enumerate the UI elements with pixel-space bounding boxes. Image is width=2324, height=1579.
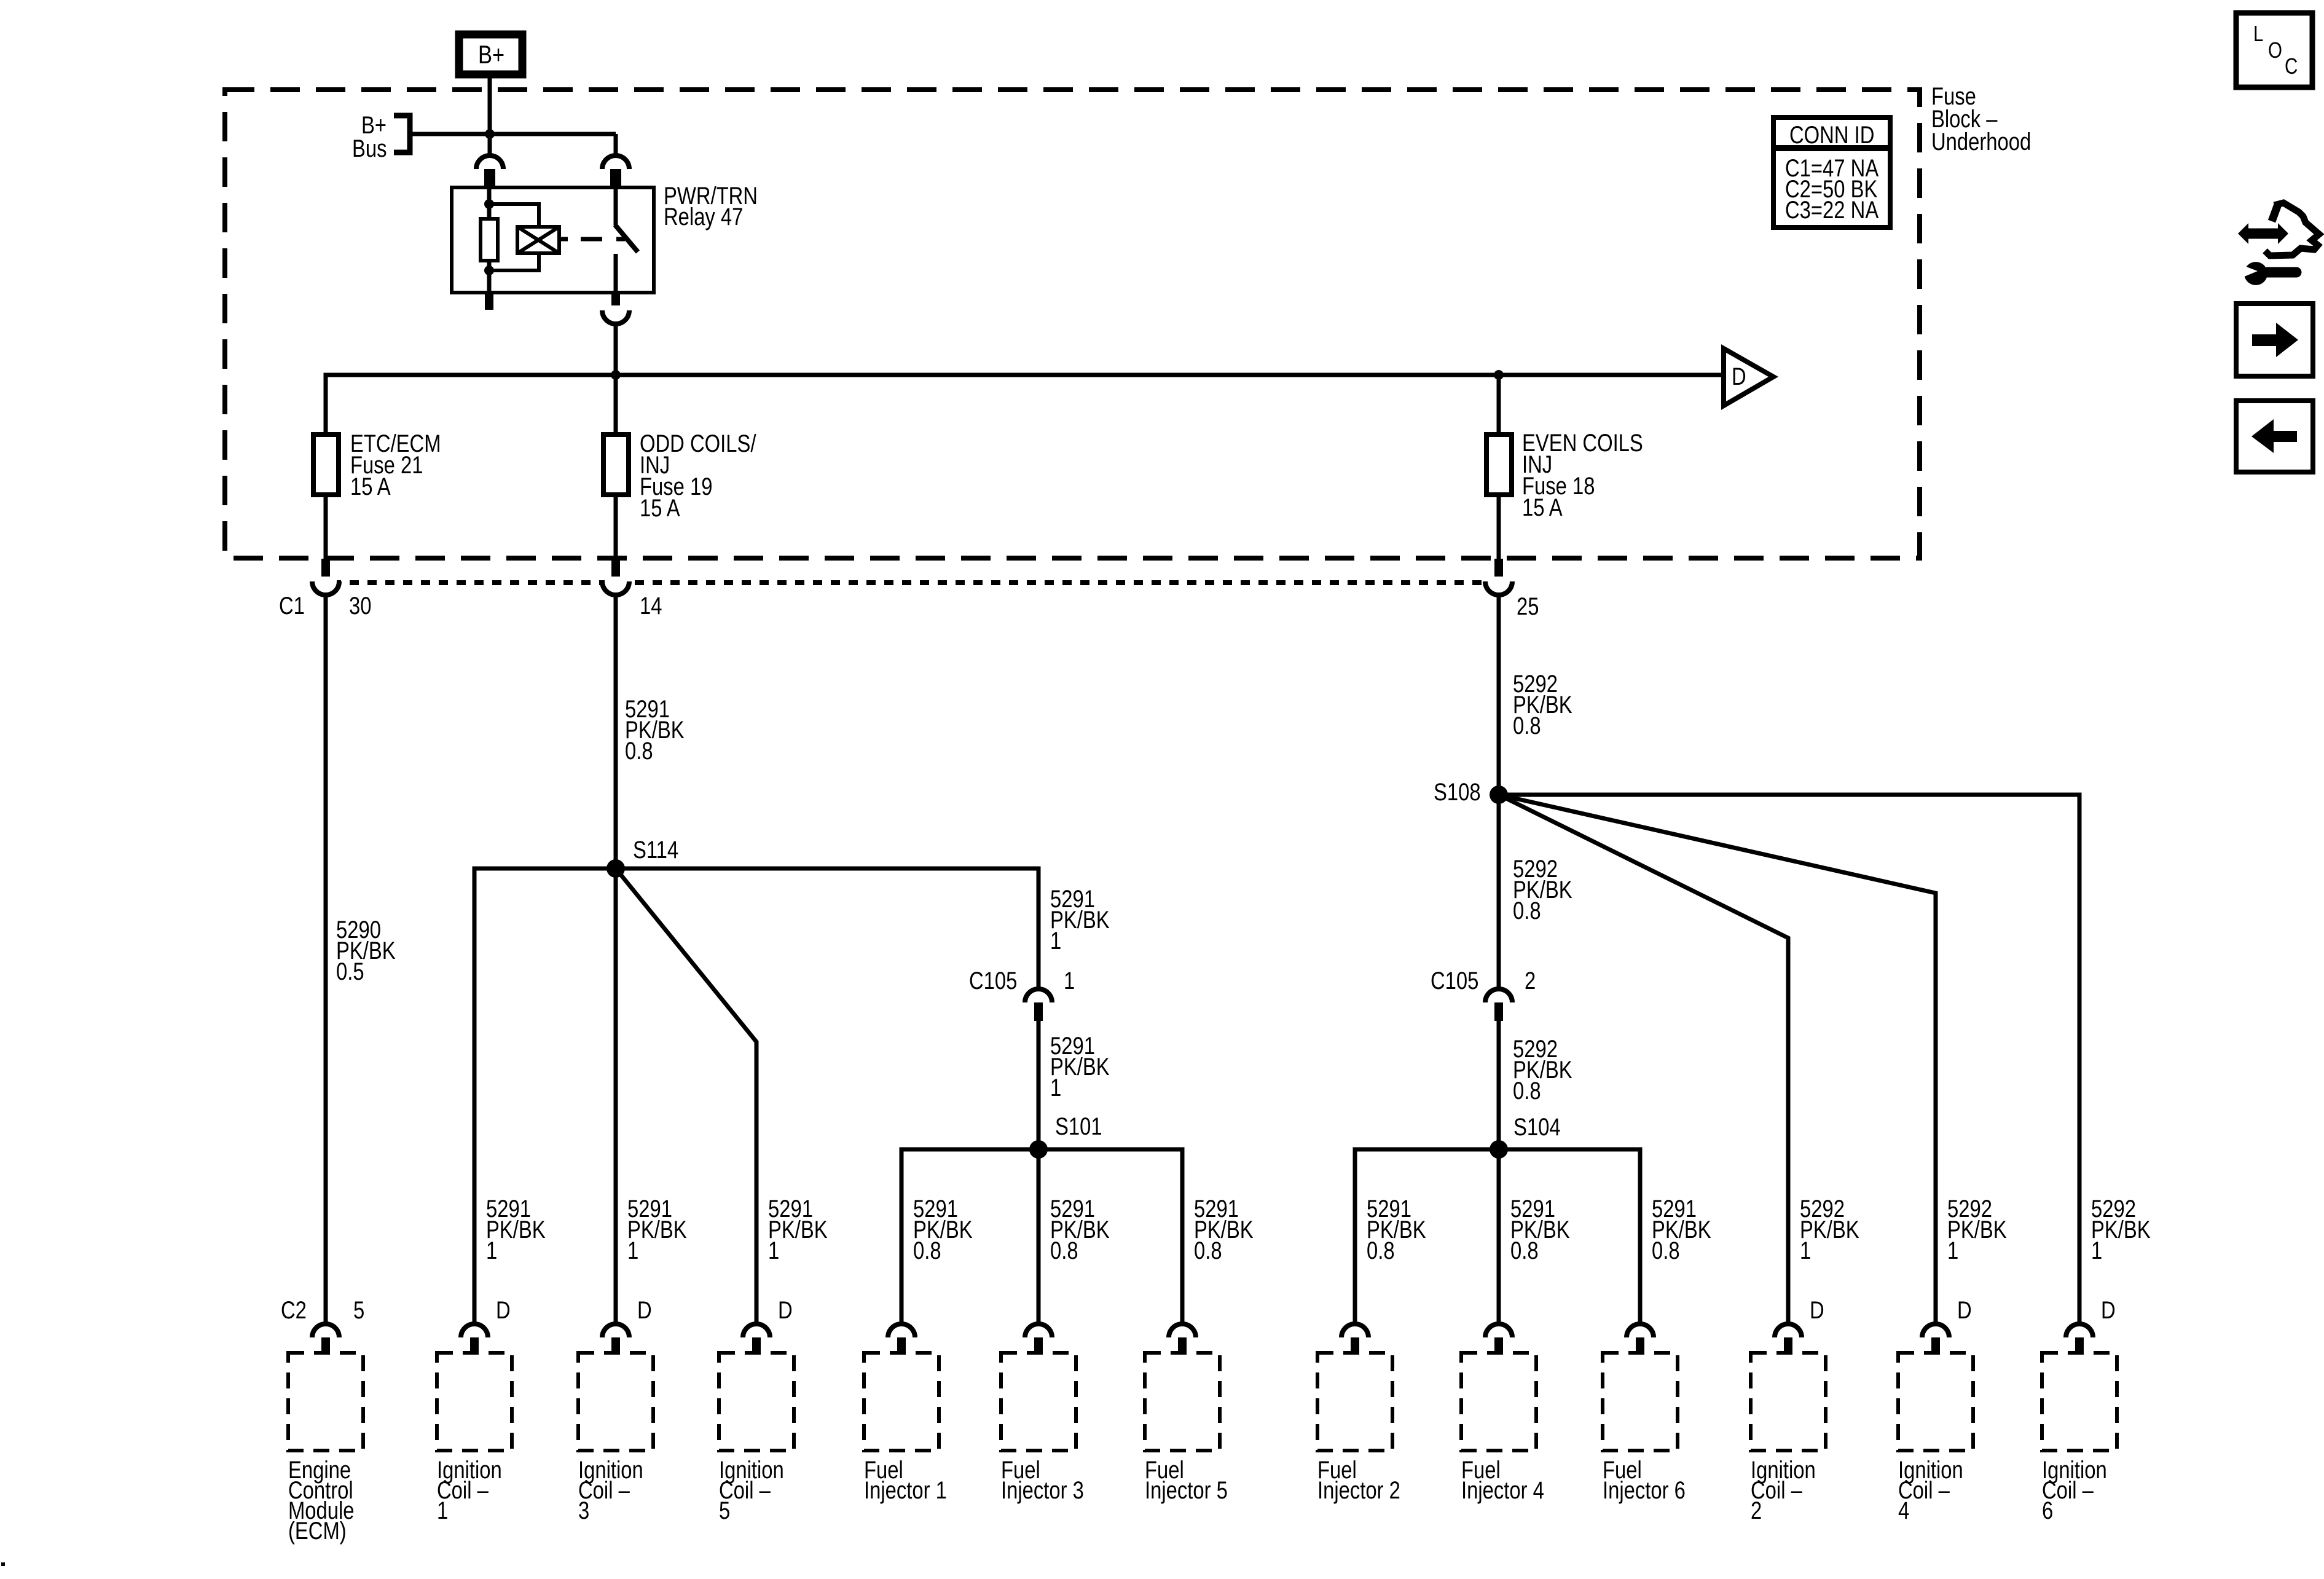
svg-text:D: D [496, 1296, 511, 1324]
connector at fuel injector 6 [1627, 1324, 1654, 1337]
svg-text:Injector 4: Injector 4 [1461, 1476, 1544, 1504]
svg-text:1: 1 [1050, 1074, 1061, 1101]
svg-text:C105: C105 [969, 967, 1017, 994]
connector at ignition coil 4 [1922, 1324, 1949, 1337]
relay internal wire below resistor [487, 261, 492, 293]
relay switch upper contact [614, 187, 618, 226]
wire S108 to ignition coil 6 [1499, 795, 2079, 1324]
wire 5290 PK/BK [324, 595, 328, 1324]
svg-text:0.8: 0.8 [1513, 712, 1541, 739]
component box fuel injector 4 [1461, 1353, 1536, 1451]
wire relay output down to bus [614, 323, 618, 375]
wire S101 to fuel injector 5 [1038, 1149, 1182, 1324]
connector at fuel injector 5 [1169, 1324, 1196, 1337]
component box ignition coil 3 [578, 1353, 653, 1451]
relay actuator dashed link [581, 237, 602, 242]
wire S101 to fuel injector 1 [901, 1149, 1038, 1324]
wire S104 to fuel injector 4 [1497, 1149, 1501, 1324]
svg-text:15 A: 15 A [1522, 494, 1563, 521]
svg-text:CONN ID: CONN ID [1789, 121, 1874, 149]
component box fuel injector 1 [864, 1353, 939, 1451]
fuse 21 ETC/ECM [313, 435, 339, 495]
connector at engine control module ECM [312, 1324, 339, 1337]
connector at ignition coil 2 [1775, 1324, 1802, 1337]
wire C105-1 to S101 [1037, 1021, 1041, 1149]
component box fuel injector 5 [1145, 1353, 1220, 1451]
component box fuel injector 6 [1603, 1353, 1678, 1451]
fuse 18 EVEN COILS INJ [1486, 435, 1512, 495]
component box ignition coil 1 [437, 1353, 512, 1451]
wire fuse 18 to connector [1497, 495, 1501, 559]
svg-text:Underhood: Underhood [1931, 128, 2031, 156]
svg-text:S101: S101 [1055, 1112, 1102, 1140]
CONN ID table [1773, 117, 1890, 227]
wire down to relay switch pin [614, 134, 618, 156]
svg-text:0.8: 0.8 [1513, 897, 1541, 924]
svg-text:0.8: 0.8 [1367, 1237, 1395, 1264]
relay resistor [481, 219, 498, 261]
svg-text:15 A: 15 A [640, 494, 680, 522]
svg-text:D: D [1810, 1296, 1824, 1324]
relay PWR/TRN 47 box [452, 187, 654, 293]
svg-text:Injector 3: Injector 3 [1001, 1476, 1084, 1504]
svg-text:30: 30 [349, 592, 371, 620]
svg-text:1: 1 [1064, 967, 1075, 994]
connector at ignition coil 1 [461, 1324, 488, 1337]
component box ignition coil 4 [1898, 1353, 1973, 1451]
wire 5292 PK/BK from fuse 18 [1497, 595, 1501, 795]
svg-text:D: D [1957, 1296, 1972, 1324]
relay internal wire left [487, 187, 492, 220]
relay coil actuator stub [559, 237, 568, 242]
svg-text:Injector 5: Injector 5 [1145, 1476, 1228, 1504]
splice S114 [607, 859, 625, 878]
svg-text:1: 1 [627, 1237, 638, 1264]
connector C1 dotted interface line [332, 580, 1486, 585]
svg-text:D: D [2101, 1296, 2116, 1324]
svg-text:C3=22 NA: C3=22 NA [1785, 196, 1879, 224]
off-page arrow D [1724, 348, 1773, 406]
svg-text:Bus: Bus [352, 135, 387, 162]
relay PWR/TRN 47 coil pin connector [476, 156, 503, 169]
svg-text:2: 2 [1751, 1497, 1762, 1524]
wire S114 to ignition coil 3 [614, 868, 618, 1324]
svg-text:1: 1 [2091, 1237, 2102, 1264]
svg-text:5: 5 [353, 1296, 364, 1324]
svg-text:6: 6 [2042, 1497, 2053, 1524]
svg-text:0.8: 0.8 [1513, 1077, 1541, 1105]
B+ bus bracket symbol [394, 116, 410, 152]
svg-text:L: L [2253, 21, 2263, 45]
fuse 19 ODD COILS/INJ [603, 435, 629, 495]
connector at ignition coil 3 [602, 1324, 629, 1337]
icon service tool (wrench and double arrow) [2238, 223, 2288, 244]
svg-text:0.8: 0.8 [1194, 1237, 1222, 1264]
svg-text:C1: C1 [279, 592, 305, 620]
wire drop to fuse 19 [614, 375, 618, 435]
wire 5291 PK/BK from fuse 19 [614, 595, 618, 868]
connector C1 pin 14 [611, 559, 620, 581]
wire C105-2 to S104 [1497, 1021, 1501, 1149]
svg-text:0.8: 0.8 [1050, 1237, 1078, 1264]
wire drop to fuse 18 [1497, 375, 1501, 435]
svg-text:S108: S108 [1434, 778, 1481, 806]
splice S104 [1490, 1140, 1508, 1159]
svg-text:Injector 6: Injector 6 [1603, 1476, 1686, 1504]
wire S108 to ignition coil 4 (diagonal) [1499, 795, 1936, 1324]
svg-text:S114: S114 [633, 836, 678, 864]
wire S114 to ignition coil 1 [474, 868, 616, 1324]
relay PWR/TRN 47 switch pin connector [602, 156, 629, 169]
relay coil branch bottom wire [489, 253, 539, 270]
connector C105 pin 2 [1485, 989, 1512, 1002]
svg-text:1: 1 [486, 1237, 497, 1264]
wire S104 to fuel injector 6 [1499, 1149, 1640, 1324]
wire S114 to C105 pin 1 [616, 868, 1038, 989]
junction dot fuse 19 feed [611, 370, 621, 380]
connector C1 pin 25 [1494, 559, 1503, 581]
wire down to relay coil pin [488, 134, 492, 156]
icon LOC box [2236, 13, 2312, 87]
connector at fuel injector 3 [1025, 1324, 1052, 1337]
icon arrow back (left) [2236, 401, 2313, 472]
svg-text:(ECM): (ECM) [288, 1517, 347, 1545]
icon arrow next (right) [2236, 304, 2313, 376]
connector at fuel injector 1 [888, 1324, 915, 1337]
svg-text:D: D [778, 1296, 793, 1324]
svg-text:1: 1 [1050, 927, 1061, 955]
page corner mark [1, 1562, 5, 1566]
wire S104 to fuel injector 2 [1355, 1149, 1499, 1324]
component box ignition coil 5 [719, 1353, 794, 1451]
connector at fuel injector 4 [1485, 1324, 1512, 1337]
svg-text:2: 2 [1525, 967, 1536, 994]
connector at ignition coil 6 [2066, 1324, 2093, 1337]
component box ignition coil 6 [2042, 1353, 2117, 1451]
svg-text:14: 14 [640, 592, 662, 620]
relay switch lower contact [614, 254, 618, 293]
wire S108 to ignition coil 2 (diagonal) [1499, 795, 1788, 1324]
connector C1 pin 30 [321, 559, 330, 581]
svg-text:C105: C105 [1431, 967, 1478, 994]
wire B+ bus horizontal [410, 132, 616, 136]
svg-text:Injector 1: Injector 1 [864, 1476, 947, 1504]
splice S108 [1490, 786, 1508, 804]
wire main feed bus [326, 375, 1724, 435]
connector C105 pin 1 [1025, 989, 1052, 1002]
junction dot fuse 18 feed [1494, 370, 1504, 380]
relay internal junction top [484, 199, 494, 209]
svg-text:C: C [2285, 53, 2298, 78]
svg-text:B+: B+ [478, 41, 504, 69]
relay internal junction bottom [484, 266, 494, 275]
svg-text:1: 1 [768, 1237, 779, 1264]
svg-text:0.8: 0.8 [625, 737, 653, 765]
svg-text:D: D [1732, 363, 1746, 390]
wire S101 to fuel injector 3 [1037, 1149, 1041, 1324]
svg-text:0.8: 0.8 [913, 1237, 941, 1264]
relay coil box with X [517, 227, 559, 253]
relay output pin [611, 293, 620, 310]
svg-text:1: 1 [1800, 1237, 1811, 1264]
connector at ignition coil 5 [743, 1324, 770, 1337]
svg-text:0.8: 0.8 [1652, 1237, 1680, 1264]
svg-text:D: D [637, 1296, 652, 1324]
svg-text:0.5: 0.5 [336, 958, 364, 985]
svg-text:Relay 47: Relay 47 [664, 203, 743, 230]
svg-text:15 A: 15 A [350, 473, 391, 500]
wire from B+ to bus junction [488, 78, 492, 134]
svg-text:5: 5 [719, 1497, 730, 1524]
svg-text:O: O [2268, 37, 2282, 62]
svg-text:3: 3 [578, 1497, 589, 1524]
connector at fuel injector 2 [1341, 1324, 1368, 1337]
component box fuel injector 3 [1001, 1353, 1076, 1451]
relay coil ground stub pin [485, 293, 493, 310]
wire fuse 19 to connector [614, 495, 618, 559]
junction dot B+ bus [485, 129, 495, 139]
svg-text:25: 25 [1517, 593, 1539, 620]
wire S114 to ignition coil 5 (diagonal) [616, 868, 756, 1324]
svg-text:S104: S104 [1513, 1113, 1561, 1141]
svg-text:1: 1 [437, 1497, 448, 1524]
relay switch blade [615, 225, 638, 252]
component box fuel injector 2 [1317, 1353, 1392, 1451]
svg-text:0.8: 0.8 [1510, 1237, 1539, 1264]
relay output pin connector cup [602, 310, 629, 324]
relay coil branch top wire [489, 204, 539, 227]
component box engine control module ECM [288, 1353, 363, 1451]
power symbol B+ [459, 34, 522, 74]
wire fuse 21 to connector [324, 495, 328, 559]
svg-text:4: 4 [1898, 1497, 1909, 1524]
fuse block underhood dashed box [225, 90, 1920, 558]
component box ignition coil 2 [1751, 1353, 1826, 1451]
svg-text:Injector 2: Injector 2 [1317, 1476, 1400, 1504]
wire S108 to C105 pin 2 [1497, 795, 1501, 989]
svg-text:C2: C2 [281, 1296, 307, 1324]
splice S101 [1029, 1140, 1048, 1159]
svg-text:1: 1 [1947, 1237, 1958, 1264]
